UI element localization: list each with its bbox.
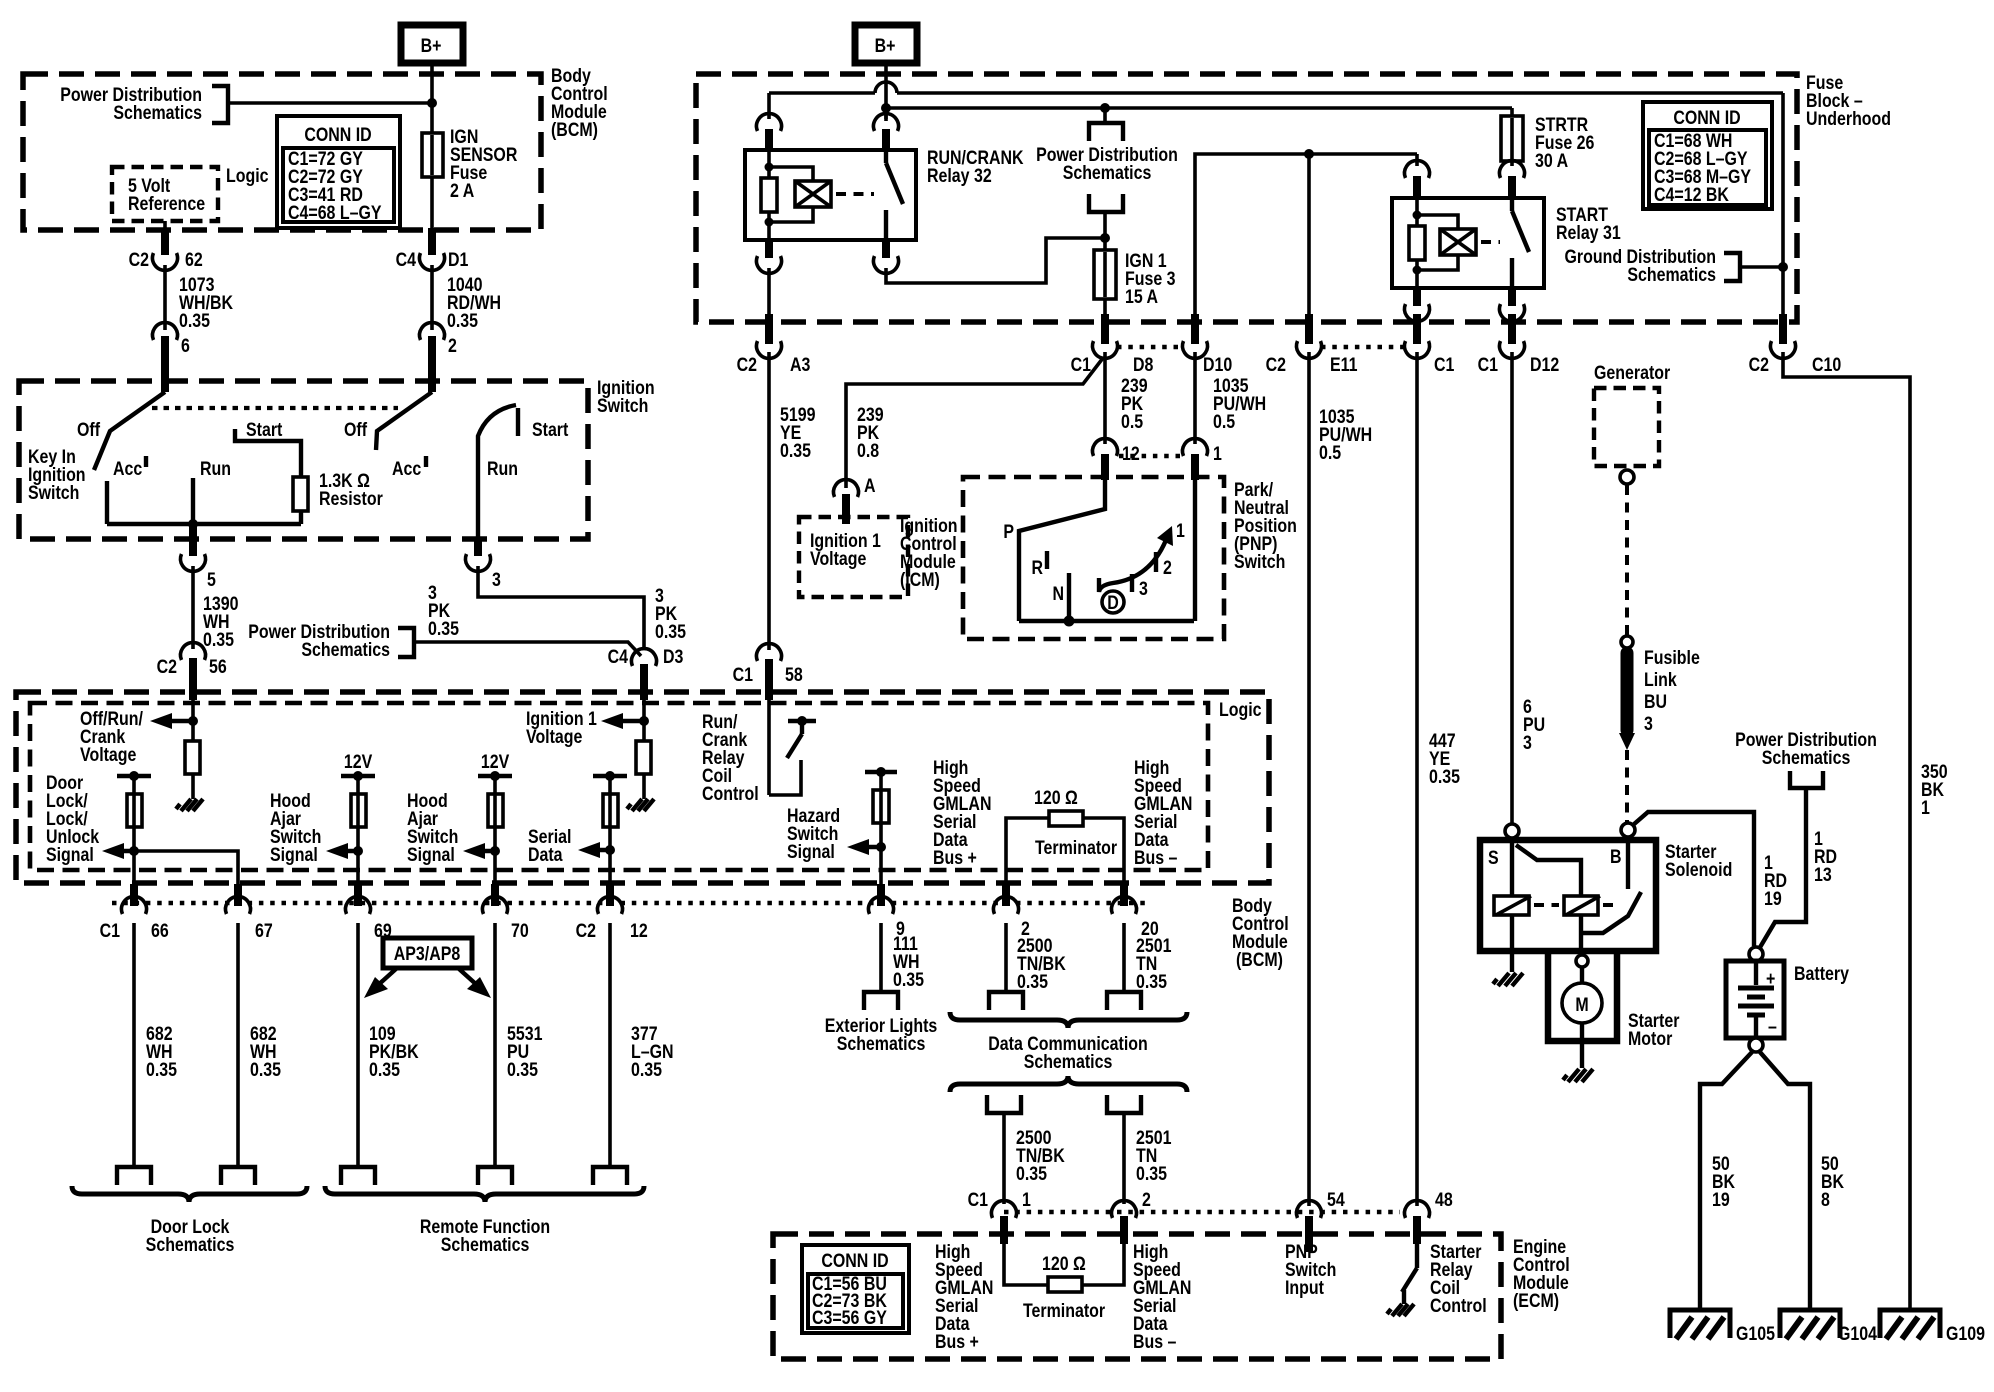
label Fuse Block - Underhood bbox=[1806, 72, 1891, 130]
B+ power symbol (right) bbox=[855, 25, 917, 63]
bus line 2 (B+ distribution) bbox=[886, 106, 1512, 110]
wire 2501 TN 0.35 to ECM bbox=[1122, 1113, 1126, 1204]
label circuit 6 PU 3 bbox=[1523, 696, 1545, 754]
contact tick 3 bbox=[1130, 574, 1134, 592]
svg-text:Schematics: Schematics bbox=[146, 1234, 235, 1256]
battery positive terminal bbox=[1749, 947, 1763, 961]
label High Speed GMLAN Serial Data Bus - (BCM) bbox=[1134, 757, 1192, 869]
label Starter Solenoid bbox=[1665, 841, 1732, 881]
fusible link terminal bbox=[1621, 636, 1633, 648]
label circuit 2500 TN/BK 0.35 (lower) bbox=[1016, 1127, 1065, 1185]
wire bus1 right drop to C10 bbox=[1781, 93, 1785, 318]
dotted connector face PNP bbox=[1119, 454, 1181, 459]
contact tick Acc right bbox=[424, 456, 428, 467]
wire B+ drop to bus bbox=[884, 63, 888, 121]
svg-text:Off: Off bbox=[344, 419, 367, 441]
svg-text:13: 13 bbox=[1814, 864, 1832, 886]
terminal pin 20 bbox=[1107, 992, 1141, 1010]
wire relay 32 coil to A3 bbox=[767, 268, 771, 318]
svg-text:0.8: 0.8 bbox=[857, 440, 879, 462]
brace door lock group bbox=[72, 1186, 307, 1202]
svg-text:Data: Data bbox=[528, 844, 563, 866]
contact tick Start right bbox=[516, 408, 520, 436]
svg-text:Schematics: Schematics bbox=[301, 639, 390, 661]
svg-text:0.35: 0.35 bbox=[893, 969, 924, 991]
label circuit 50 BK 8 bbox=[1821, 1153, 1844, 1211]
svg-text:Control: Control bbox=[1430, 1295, 1487, 1317]
label circuit 2501 TN 0.35 (upper) bbox=[1136, 935, 1172, 993]
label STRTR Fuse 26 30 A bbox=[1535, 114, 1595, 172]
svg-text:0.35: 0.35 bbox=[1136, 971, 1167, 993]
svg-text:1: 1 bbox=[1176, 520, 1185, 542]
resistor hazard bbox=[873, 790, 889, 823]
label circuit 50 BK 19 bbox=[1712, 1153, 1735, 1211]
label circuit 111 WH 0.35 bbox=[893, 933, 924, 991]
wire relay 31 coil drop bbox=[1415, 154, 1419, 166]
svg-text:CONN ID: CONN ID bbox=[821, 1250, 888, 1272]
wire branch to pin 67 bbox=[134, 851, 238, 905]
svg-text:12: 12 bbox=[1122, 443, 1140, 465]
label Body Control Module (BCM) right bbox=[1232, 895, 1289, 971]
svg-text:Signal: Signal bbox=[46, 844, 94, 866]
resistor door lock bbox=[127, 794, 142, 827]
label Exterior Lights Schematics bbox=[825, 1015, 938, 1055]
connector C1 pin 66 bbox=[100, 884, 169, 941]
svg-text:Motor: Motor bbox=[1628, 1028, 1672, 1050]
connector pin 69 bbox=[346, 884, 392, 941]
svg-text:Switch: Switch bbox=[1234, 551, 1285, 573]
svg-text:AP3/AP8: AP3/AP8 bbox=[394, 943, 461, 965]
svg-text:6: 6 bbox=[181, 335, 190, 357]
terminal pin 2 bbox=[989, 992, 1023, 1010]
connector pin 54 (ECM) bbox=[1297, 1189, 1345, 1252]
label Serial Data bbox=[528, 826, 571, 866]
svg-text:Schematics: Schematics bbox=[1024, 1051, 1113, 1073]
node IGN1 fuse junction bbox=[1100, 233, 1110, 243]
connector pin 67 bbox=[225, 884, 272, 941]
wire GMLAN bus plus bbox=[1006, 818, 1049, 905]
connector C1 pin D12 (fuse block exit) bbox=[1478, 314, 1560, 375]
dashed link relay 31 bbox=[1481, 240, 1500, 244]
label circuit 447 YE 0.35 bbox=[1429, 730, 1460, 788]
label circuit 5531 PU 0.35 bbox=[507, 1023, 543, 1081]
svg-text:0.5: 0.5 bbox=[1319, 442, 1341, 464]
wire serial data pin 12 bbox=[608, 776, 612, 905]
label Remote Function Schematics bbox=[420, 1216, 550, 1256]
solenoid coil 1 to ground bbox=[1510, 915, 1514, 972]
wire 2500 TN/BK 0.35 to ECM bbox=[1002, 1113, 1006, 1204]
wire 2501 TN 0.35 (pin 20) bbox=[1122, 923, 1126, 992]
label Power Distribution Schematics (battery feed) bbox=[1735, 729, 1877, 769]
wire C10 to 350 BK bbox=[1783, 352, 1910, 1310]
relay 32 switch bbox=[886, 152, 903, 240]
terminal S bbox=[1505, 824, 1519, 838]
svg-text:0.35: 0.35 bbox=[203, 629, 234, 651]
bracket upper (power distribution fuse block) bbox=[1089, 123, 1123, 141]
svg-text:Off: Off bbox=[77, 419, 100, 441]
svg-text:CONN ID: CONN ID bbox=[1673, 107, 1740, 129]
connector face dotted row (ECM) bbox=[1004, 1210, 1400, 1215]
label circuit 682 WH 0.35 (67) bbox=[250, 1023, 281, 1081]
node hood ajar 2 signal bbox=[490, 846, 500, 856]
svg-text:67: 67 bbox=[255, 920, 273, 942]
connector PNP pin 12 bbox=[1093, 439, 1140, 480]
label Ignition 1 Voltage (BCM) bbox=[526, 708, 597, 748]
wire hood ajar 2 pin 70 bbox=[493, 776, 497, 905]
svg-text:Bus –: Bus – bbox=[1133, 1331, 1177, 1353]
svg-text:0.35: 0.35 bbox=[1429, 766, 1460, 788]
svg-text:Fusible: Fusible bbox=[1644, 647, 1700, 669]
solenoid coil 2 out bbox=[1579, 915, 1583, 951]
contact Run left bbox=[191, 478, 195, 524]
label circuit 2501 TN 0.35 (lower) bbox=[1136, 1127, 1172, 1185]
svg-text:62: 62 bbox=[185, 249, 203, 271]
wire motor to ground bbox=[1580, 1023, 1584, 1068]
wire 682 WH 0.35 (pin 66) bbox=[132, 923, 136, 1167]
svg-text:Schematics: Schematics bbox=[837, 1033, 926, 1055]
svg-text:Solenoid: Solenoid bbox=[1665, 859, 1732, 881]
connector relay 32 switch out bbox=[874, 240, 899, 273]
connector C1 pin 1 (ECM) bbox=[968, 1189, 1031, 1244]
wire BCM fuse out bbox=[430, 177, 434, 232]
terminal pin 70 bbox=[478, 1167, 512, 1185]
wire 111 WH 0.35 (pin 9) bbox=[879, 923, 883, 992]
svg-text:C3=56 GY: C3=56 GY bbox=[812, 1307, 887, 1329]
bracket power distribution (ignition feed) bbox=[398, 628, 414, 657]
label Ground Distribution Schematics bbox=[1565, 246, 1717, 286]
solenoid hold-in coil bbox=[1564, 896, 1600, 915]
contact Acc left bbox=[105, 481, 109, 524]
label circuit 350 BK 1 bbox=[1921, 761, 1948, 819]
relay 31 coil bbox=[1409, 200, 1458, 288]
wire 2500 TN/BK 0.35 (pin 2) bbox=[1004, 923, 1008, 992]
svg-text:D8: D8 bbox=[1133, 354, 1154, 376]
ground G104 bbox=[1780, 1310, 1877, 1344]
svg-text:P: P bbox=[1003, 521, 1014, 543]
label circuit 1073 WH/BK 0.35 bbox=[179, 274, 233, 332]
fuse block underhood dashed box bbox=[696, 74, 1797, 322]
contact tick 2 bbox=[1154, 552, 1158, 572]
svg-text:0.5: 0.5 bbox=[1213, 411, 1235, 433]
connector relay 32 coil out bbox=[756, 240, 781, 273]
svg-text:R: R bbox=[1032, 557, 1044, 579]
arrow serial data signal bbox=[578, 842, 610, 858]
terminal pin 66 bbox=[117, 1167, 151, 1185]
label circuit 1390 WH 0.35 bbox=[203, 593, 239, 651]
svg-text:56: 56 bbox=[209, 656, 227, 678]
svg-text:Generator: Generator bbox=[1594, 362, 1670, 384]
wire 1390 WH 0.35 bbox=[191, 566, 195, 649]
svg-text:C1: C1 bbox=[1478, 354, 1499, 376]
park/neutral position switch dashed box bbox=[963, 477, 1224, 639]
connector relay 31 switch pin bbox=[1499, 161, 1524, 200]
label Key In Ignition Switch bbox=[28, 446, 86, 504]
solenoid switch blade bbox=[1582, 892, 1641, 933]
engine control module dashed box bbox=[773, 1234, 1501, 1359]
svg-text:0.35: 0.35 bbox=[1136, 1163, 1167, 1185]
battery negative terminal bbox=[1749, 1038, 1763, 1052]
svg-text:66: 66 bbox=[151, 920, 169, 942]
node E11 branch bbox=[1304, 149, 1314, 159]
wire power distribution drop (fuse block) bbox=[1103, 108, 1107, 123]
label Ignition Control Module (ICM) bbox=[900, 515, 958, 591]
svg-text:Acc: Acc bbox=[392, 458, 421, 480]
connector ignition switch pin 6 bbox=[153, 323, 191, 392]
connector C4 pin D3 (BCM entry) bbox=[608, 646, 684, 700]
wire resistor to common rail bbox=[299, 511, 303, 524]
label circuit 1035 PU/WH 0.5 (D10) bbox=[1213, 375, 1266, 433]
svg-text:N: N bbox=[1052, 583, 1064, 605]
off/run/crank voltage node bbox=[150, 700, 198, 741]
svg-text:Terminator: Terminator bbox=[1023, 1300, 1105, 1322]
bracket lower (power distribution fuse block) bbox=[1089, 194, 1123, 212]
label Hood Ajar Switch Signal 2 bbox=[407, 790, 458, 866]
svg-text:19: 19 bbox=[1764, 888, 1782, 910]
label IGN SENSOR Fuse 2A bbox=[450, 126, 518, 202]
label Door Lock Schematics bbox=[146, 1216, 235, 1256]
relay START Relay 31 box bbox=[1392, 198, 1544, 288]
label Starter Relay Coil Control (ECM) bbox=[1430, 1241, 1487, 1317]
connector ignition switch pin 5 (output) bbox=[181, 524, 217, 590]
fuse IGN 1 Fuse 3 15A bbox=[1094, 250, 1116, 299]
svg-text:G105: G105 bbox=[1736, 1323, 1775, 1345]
svg-text:Start: Start bbox=[246, 419, 282, 441]
connector C1 (relay 31 coil exit) bbox=[1405, 314, 1455, 375]
label High Speed GMLAN Serial Data Bus + (BCM) bbox=[933, 757, 991, 869]
contact tick R bbox=[1045, 551, 1049, 569]
serial data tap bbox=[593, 771, 627, 781]
wire ECM bus plus bbox=[1004, 1240, 1048, 1285]
label circuit 3 PK 0.35 (right) bbox=[655, 585, 686, 643]
svg-text:S: S bbox=[1488, 847, 1499, 869]
label circuit 5199 YE 0.35 bbox=[780, 404, 816, 462]
ground (ECM starter relay) bbox=[1387, 1304, 1414, 1316]
arrow door lock signal bbox=[102, 843, 134, 859]
ignition control module dashed box bbox=[799, 517, 908, 597]
svg-text:Run: Run bbox=[200, 458, 231, 480]
svg-text:0.35: 0.35 bbox=[179, 310, 210, 332]
label Starter Motor bbox=[1628, 1010, 1680, 1050]
wire relay 31 switch to D12 bbox=[1510, 316, 1514, 318]
svg-text:+: + bbox=[1766, 968, 1775, 990]
12V tap hood ajar 1 bbox=[341, 771, 375, 781]
label circuit 2500 TN/BK 0.35 (upper) bbox=[1017, 935, 1066, 993]
resistor hood ajar 1 bbox=[351, 794, 366, 827]
svg-text:2: 2 bbox=[1163, 557, 1172, 579]
connector relay 31 coil out bbox=[1405, 288, 1430, 321]
node hood ajar 1 signal bbox=[353, 846, 363, 856]
wire B+ down into BCM bbox=[430, 63, 434, 137]
arrow AP3/AP8 left bbox=[364, 968, 397, 998]
node rail junction bbox=[188, 519, 198, 529]
label PNP Switch Input bbox=[1285, 1241, 1336, 1299]
generator dashed box bbox=[1594, 388, 1659, 466]
svg-text:B+: B+ bbox=[421, 35, 442, 57]
label Engine Control Module (ECM) bbox=[1513, 1236, 1570, 1312]
svg-text:C2: C2 bbox=[157, 656, 178, 678]
svg-text:Schematics: Schematics bbox=[113, 102, 202, 124]
svg-text:E11: E11 bbox=[1330, 354, 1358, 376]
svg-text:Logic: Logic bbox=[1219, 699, 1262, 721]
svg-text:Start: Start bbox=[532, 419, 568, 441]
svg-text:0.35: 0.35 bbox=[369, 1059, 400, 1081]
svg-text:3: 3 bbox=[1644, 713, 1653, 735]
label START Relay 31 bbox=[1556, 204, 1621, 244]
svg-text:B+: B+ bbox=[875, 35, 896, 57]
label circuit 1035 PU/WH 0.5 (E11) bbox=[1319, 406, 1372, 464]
label IGN 1 Fuse 3 15 A bbox=[1125, 250, 1176, 308]
arrow hood ajar 2 signal bbox=[463, 843, 495, 859]
svg-text:D: D bbox=[1107, 592, 1119, 614]
node N junction bbox=[1064, 616, 1075, 627]
switch blade right pole bbox=[376, 392, 432, 450]
connector C4 pin D1 (BCM exit) bbox=[396, 228, 469, 270]
svg-text:C1: C1 bbox=[968, 1189, 989, 1211]
label circuit 377 L-GN 0.35 bbox=[631, 1023, 674, 1081]
node B+ feed junction bbox=[427, 98, 437, 108]
svg-text:C2: C2 bbox=[737, 354, 758, 376]
label Hazard Switch Signal bbox=[787, 805, 840, 863]
PNP switch wiper P position bbox=[1019, 478, 1105, 621]
ground G109 bbox=[1880, 1310, 1985, 1344]
svg-text:C2: C2 bbox=[129, 249, 150, 271]
svg-text:Schematics: Schematics bbox=[441, 1234, 530, 1256]
svg-text:2: 2 bbox=[1142, 1189, 1151, 1211]
label Power Distribution Schematics (BCM feed) bbox=[60, 84, 202, 124]
contact N line bbox=[1067, 573, 1071, 621]
connector C1 pin 58 (BCM entry) bbox=[733, 644, 803, 700]
svg-text:Logic: Logic bbox=[226, 165, 269, 187]
svg-text:C4=12 BK: C4=12 BK bbox=[1654, 184, 1729, 206]
wire 377 L-GN 0.35 (pin 12) bbox=[608, 923, 612, 1167]
dashed link relay 32 bbox=[836, 192, 874, 196]
svg-text:BU: BU bbox=[1644, 691, 1667, 713]
label circuit 1 RD 19 bbox=[1764, 852, 1787, 910]
relay 32 core (X box) bbox=[795, 181, 831, 207]
svg-text:Voltage: Voltage bbox=[80, 744, 137, 766]
12V tap hood ajar 2 bbox=[478, 771, 512, 781]
connector C2 pin 56 (BCM entry) bbox=[157, 643, 227, 700]
wire 5199 YE 0.35 (A3 to BCM 58) bbox=[767, 352, 771, 650]
svg-text:Voltage: Voltage bbox=[810, 548, 867, 570]
battery negative split bbox=[1700, 1051, 1810, 1310]
svg-text:Schematics: Schematics bbox=[1063, 162, 1152, 184]
motor terminal bbox=[1576, 955, 1588, 967]
svg-text:30 A: 30 A bbox=[1535, 150, 1568, 172]
relay 32 coil bbox=[761, 152, 813, 240]
run/crank relay coil control switch bbox=[769, 700, 816, 795]
connector relay 32 switch pin bbox=[874, 108, 899, 152]
connector relay 31 coil pin bbox=[1405, 161, 1430, 200]
starter solenoid box bbox=[1480, 840, 1656, 951]
wire E11 drop bbox=[1307, 154, 1311, 318]
label Door Lock/Lock/Unlock Signal bbox=[46, 772, 99, 866]
wire ground distribution to bus bbox=[1740, 265, 1783, 269]
label Off/Run/Crank Voltage bbox=[80, 708, 143, 766]
svg-text:C2: C2 bbox=[576, 920, 597, 942]
svg-text:Signal: Signal bbox=[270, 844, 318, 866]
svg-text:Schematics: Schematics bbox=[1627, 264, 1716, 286]
ground (solenoid) bbox=[1493, 973, 1523, 986]
connector C2 pin C10 (fuse block exit) bbox=[1749, 314, 1842, 375]
svg-text:Terminator: Terminator bbox=[1035, 837, 1117, 859]
ground (starter motor) bbox=[1563, 1069, 1593, 1082]
brace remote function group bbox=[325, 1186, 644, 1202]
svg-text:1: 1 bbox=[1921, 797, 1930, 819]
dotted connector face D8-D10 bbox=[1117, 345, 1183, 350]
svg-text:G104: G104 bbox=[1838, 1323, 1877, 1345]
resistor terminator (BCM) bbox=[1049, 811, 1083, 826]
svg-text:5: 5 bbox=[207, 569, 216, 591]
wire bus1 to relay 32 coil bbox=[767, 93, 771, 119]
node door lock signal bbox=[129, 846, 139, 856]
wire GMLAN bus minus bbox=[1083, 818, 1124, 905]
wire 447 YE 0.35 (relay 31 coil to ECM 48) bbox=[1415, 352, 1419, 1206]
svg-text:C4=68 L–GY: C4=68 L–GY bbox=[288, 202, 382, 224]
conn id table (ECM) bbox=[802, 1245, 909, 1333]
label Fusible Link BU 3 bbox=[1644, 647, 1700, 735]
hazard switch tap bbox=[865, 767, 897, 777]
ignition switch dashed box bbox=[19, 381, 588, 539]
connector pin 9 bbox=[869, 884, 906, 939]
svg-text:0.35: 0.35 bbox=[447, 310, 478, 332]
svg-text:0.35: 0.35 bbox=[780, 440, 811, 462]
label Ignition 1 Voltage (ICM) bbox=[810, 530, 881, 570]
terminal ECM bus plus bbox=[987, 1095, 1021, 1113]
label circuit 3 PK 0.35 (left) bbox=[428, 582, 459, 640]
svg-text:15 A: 15 A bbox=[1125, 286, 1158, 308]
svg-text:Control: Control bbox=[702, 783, 759, 805]
dotted connector face E11-C1 bbox=[1321, 345, 1405, 350]
wire power distribution to B+ node bbox=[228, 101, 432, 105]
svg-text:0.5: 0.5 bbox=[1121, 411, 1143, 433]
connector C2 pin A3 (fuse block exit) bbox=[737, 314, 811, 375]
svg-text:C10: C10 bbox=[1812, 354, 1841, 376]
resistor serial data bbox=[603, 794, 618, 827]
battery cells bbox=[1738, 961, 1777, 1038]
bus line 1 (ground distribution) with hop bbox=[769, 82, 1783, 93]
switch blade left pole bbox=[94, 392, 165, 470]
terminal pin 12 bbox=[593, 1167, 627, 1185]
relay RUN/CRANK Relay 32 box bbox=[745, 150, 916, 240]
connector ICM pin A bbox=[834, 475, 876, 524]
relay 31 core (X box) bbox=[1440, 229, 1476, 255]
terminal pin 69 bbox=[341, 1167, 375, 1185]
wire 1 RD 13 to battery bbox=[1759, 788, 1806, 949]
svg-text:C1: C1 bbox=[1434, 354, 1455, 376]
arrow hazard signal bbox=[847, 839, 881, 855]
ground (BCM left) bbox=[176, 799, 203, 811]
svg-text:Resistor: Resistor bbox=[319, 488, 383, 510]
mechanical link (dotted) between switch poles bbox=[152, 406, 398, 410]
wire 1035 PU/WH 0.5 (D10 to PNP 1) bbox=[1193, 352, 1197, 444]
svg-text:0.35: 0.35 bbox=[655, 621, 686, 643]
resistor 1.3K bbox=[293, 477, 308, 511]
brace data communication upper bbox=[950, 1012, 1187, 1028]
svg-text:2 A: 2 A bbox=[450, 180, 475, 202]
svg-text:19: 19 bbox=[1712, 1189, 1730, 1211]
solenoid B contact bbox=[1626, 837, 1630, 889]
wire ignition 1 to ground bbox=[642, 774, 646, 799]
starter motor M bbox=[1562, 967, 1602, 1023]
svg-text:48: 48 bbox=[1435, 1189, 1453, 1211]
dashed link solenoid coils bbox=[1534, 903, 1559, 907]
label RUN/CRANK Relay 32 bbox=[927, 147, 1024, 187]
wire 1035 PU/WH 0.5 (E11 to ECM 54) bbox=[1307, 352, 1311, 1206]
wire solenoid B to battery (1 RD 19) bbox=[1633, 812, 1754, 946]
svg-text:Signal: Signal bbox=[407, 844, 455, 866]
connector pin 2 bbox=[994, 884, 1031, 939]
